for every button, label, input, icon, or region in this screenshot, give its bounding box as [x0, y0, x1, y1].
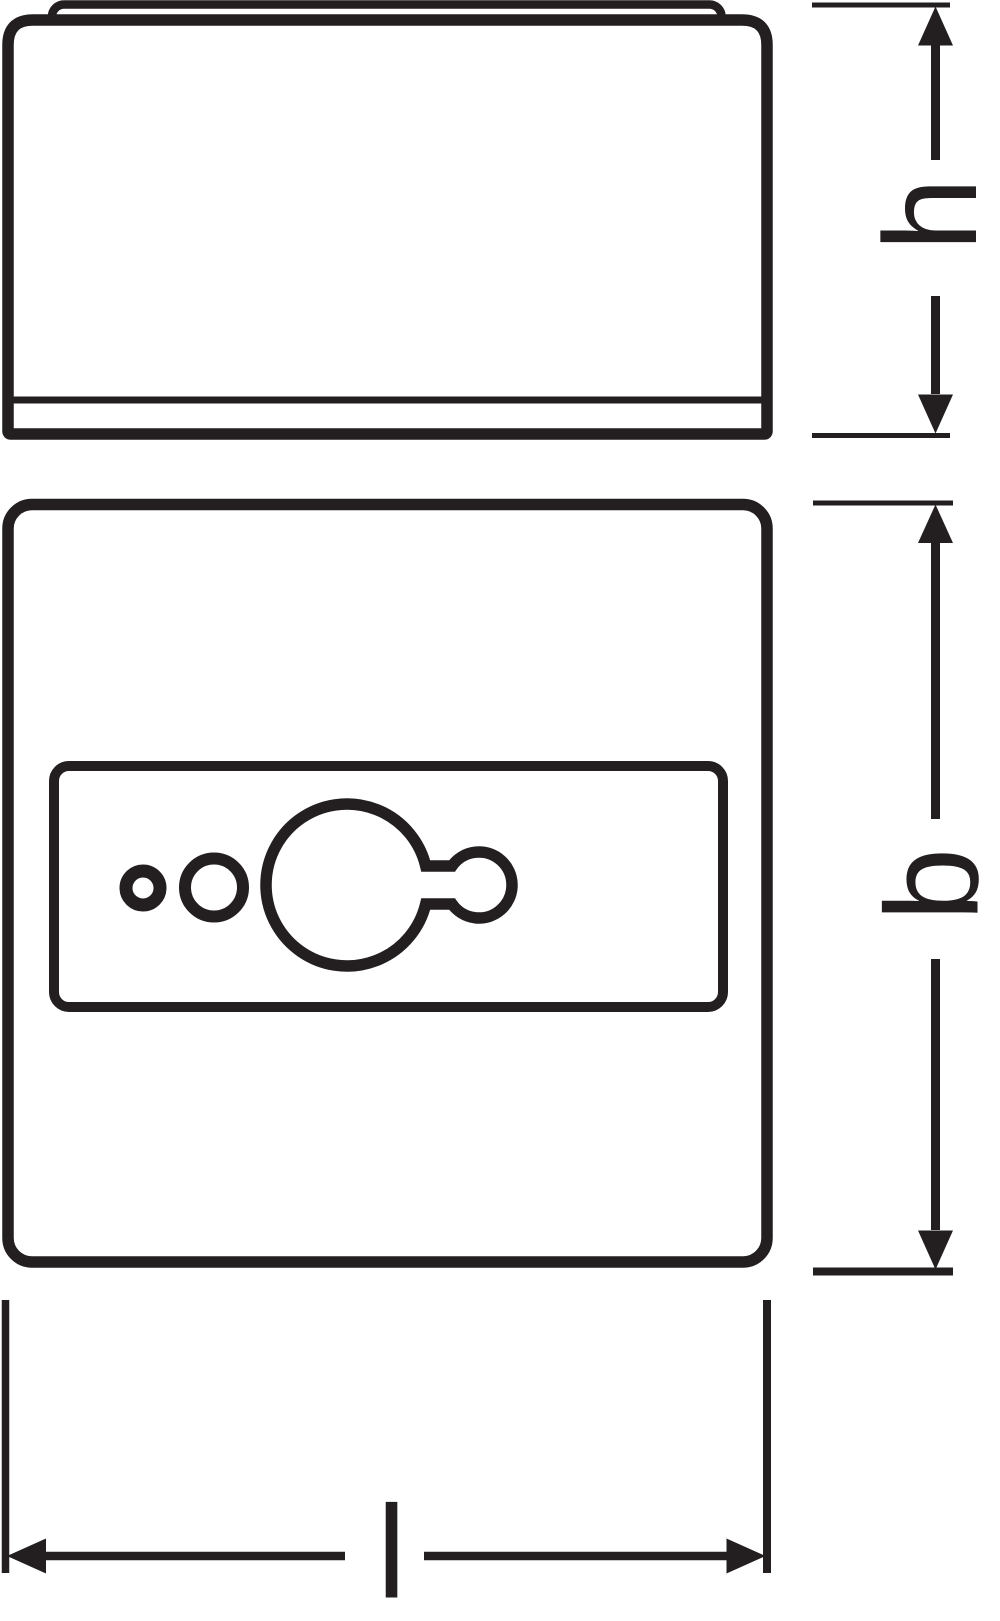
dimension l: left extension line	[2, 1300, 10, 1573]
dimension l: right arrow line	[424, 1552, 728, 1561]
dimension l: left arrow line	[45, 1552, 345, 1561]
svg-text:h: h	[857, 178, 1000, 251]
button recess frame (inner rounded rectangle)	[54, 766, 723, 1007]
dimension l: right extension line	[763, 1300, 771, 1573]
top cover plate (rear lid, top view)	[52, 5, 722, 45]
dimension h: lower arrow line	[931, 296, 940, 394]
indicator circle (medium circle)	[185, 859, 243, 917]
indicator dot (small circle)	[126, 871, 160, 905]
svg-text:b: b	[859, 848, 1000, 921]
front face plate (front view outline)	[8, 505, 767, 1263]
dimension h: bottom extension tick	[812, 433, 950, 438]
dimension b: top extension tick	[813, 501, 953, 506]
dimension b: lower arrowhead	[918, 1231, 953, 1270]
dimension h: upper arrow line	[931, 44, 940, 160]
dimension h: upper arrowhead	[918, 7, 953, 46]
dimension h: lower arrowhead	[918, 395, 953, 434]
dimension b: upper arrow line	[931, 542, 940, 819]
dimension l: right arrowhead	[727, 1539, 766, 1574]
dimension b: lower arrow line	[931, 959, 940, 1230]
housing body (side view outline)	[8, 20, 767, 434]
push button keyhole outline (large circle joined to small circle)	[266, 804, 512, 966]
dimension b: upper arrowhead	[918, 505, 953, 544]
svg-text:l: l	[377, 1479, 406, 1621]
base seam line (side view)	[11, 397, 764, 404]
dimension l: left arrowhead	[7, 1539, 46, 1574]
dimension b: bottom extension tick	[813, 1268, 953, 1276]
dimension h: top extension tick	[812, 3, 950, 8]
